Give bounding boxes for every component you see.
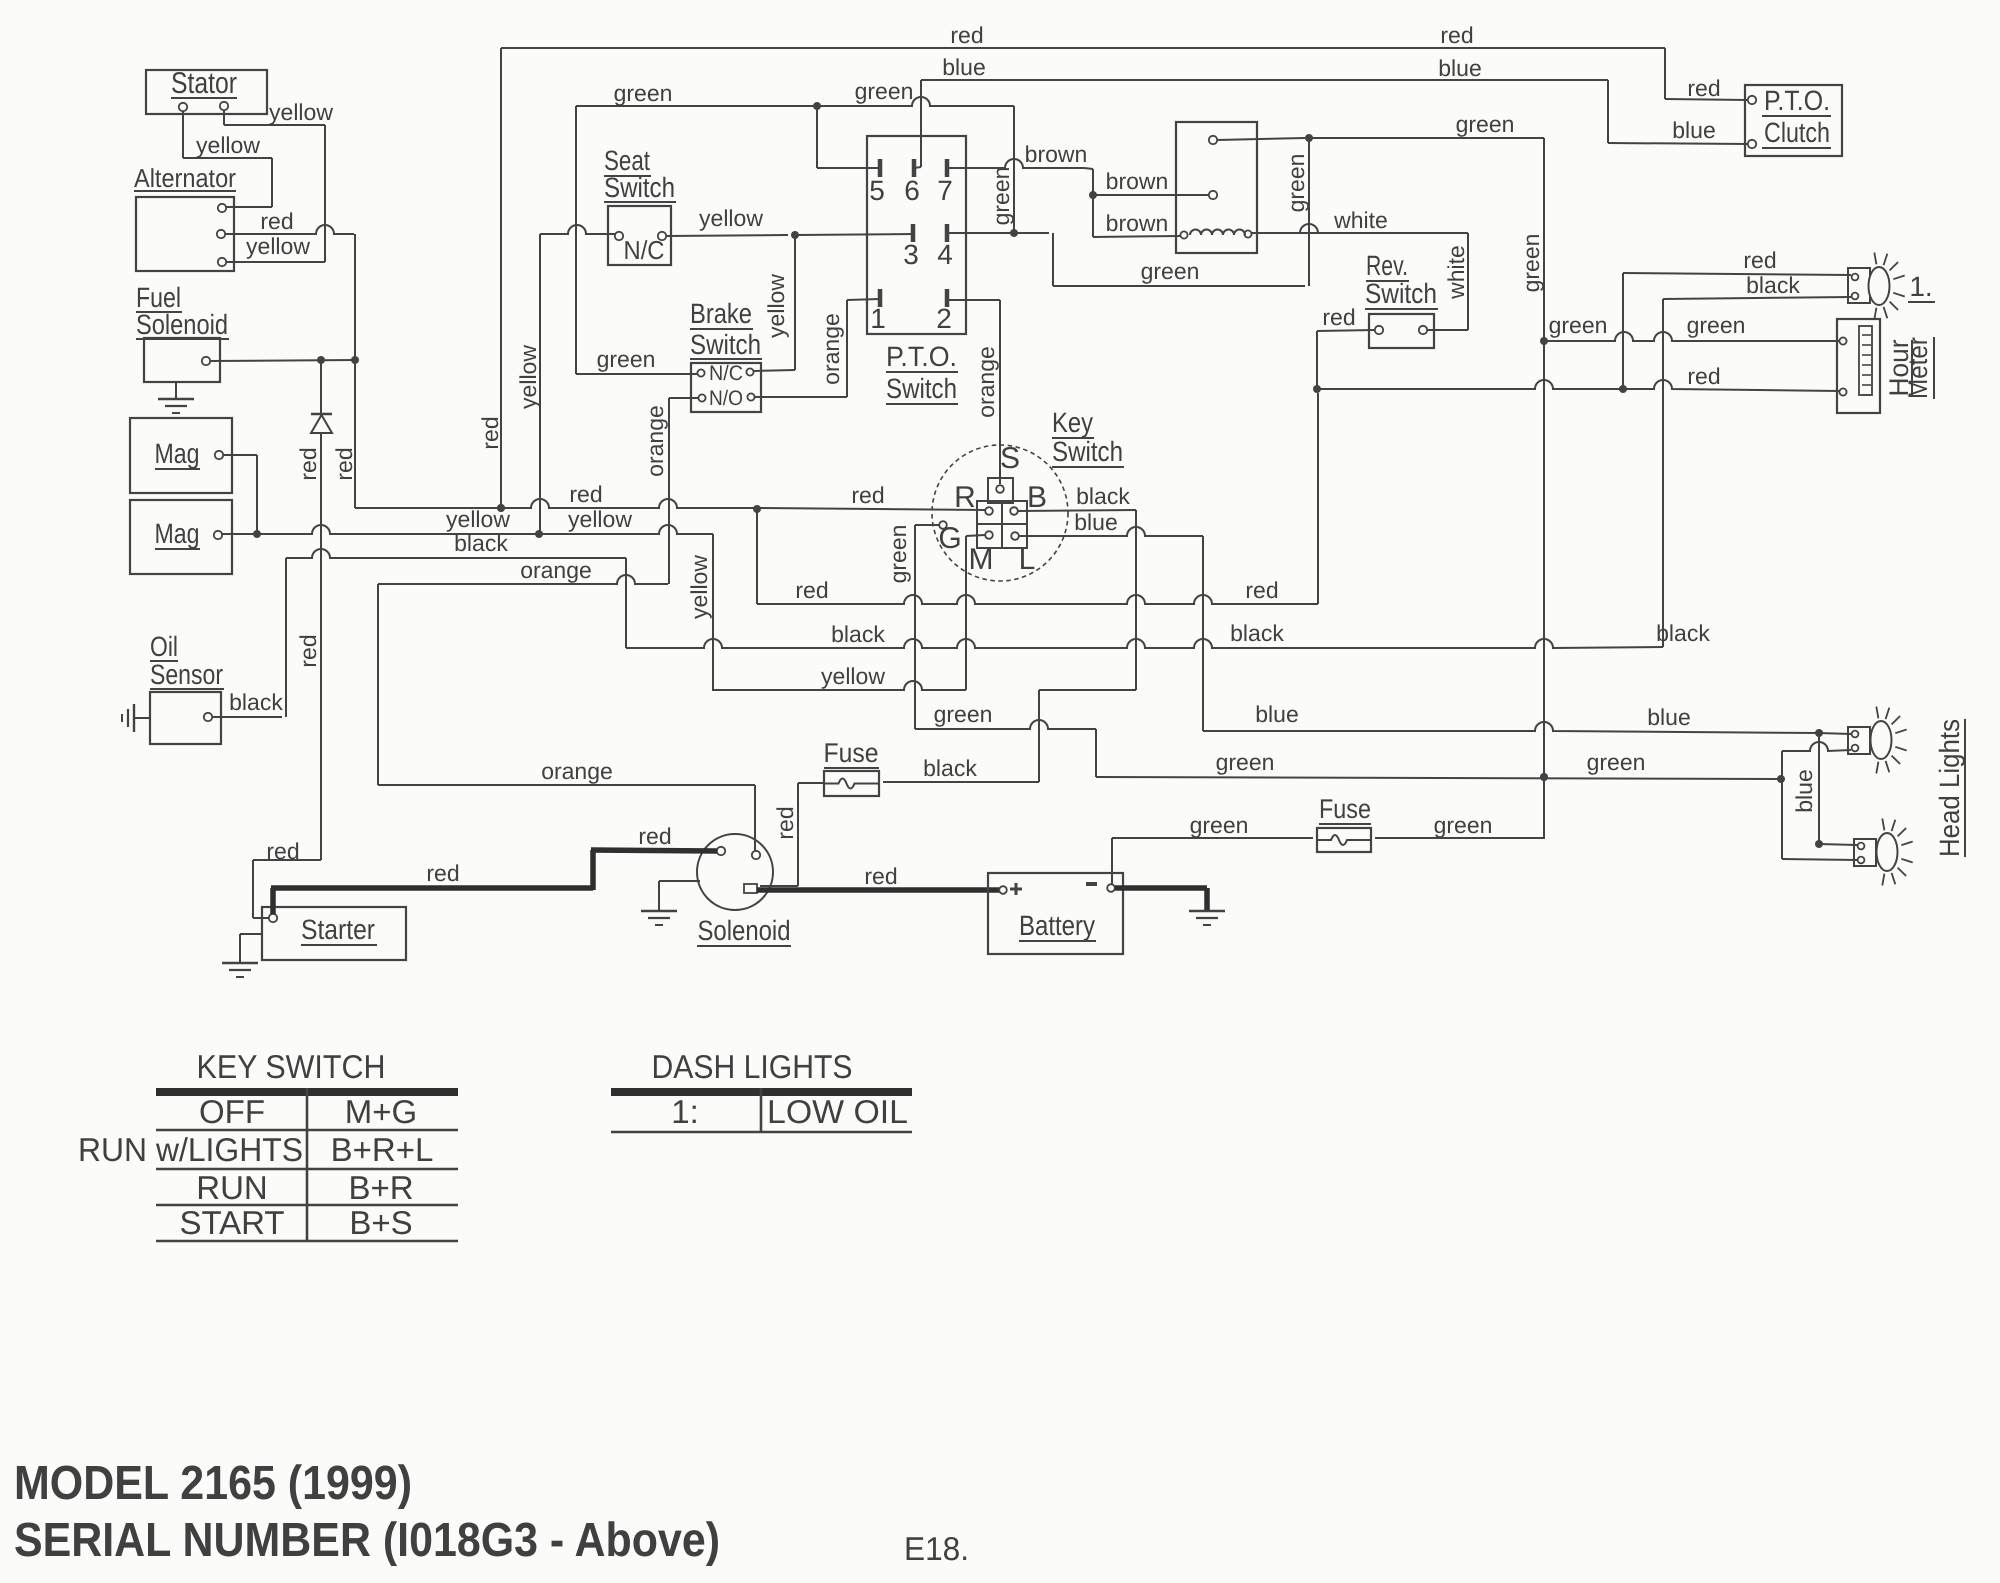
svg-text:B: B bbox=[1027, 481, 1047, 514]
svg-text:yellow: yellow bbox=[246, 233, 310, 259]
svg-text:Stator: Stator bbox=[171, 67, 237, 100]
svg-text:RUN: RUN bbox=[196, 1169, 268, 1206]
wire red key junction drop bbox=[756, 509, 758, 604]
svg-text:Mag: Mag bbox=[155, 438, 200, 469]
svg-text:red: red bbox=[864, 863, 897, 889]
wire black bus bbox=[212, 530, 1710, 717]
svg-text:P.T.O.: P.T.O. bbox=[886, 341, 957, 372]
svg-text:B+R+L: B+R+L bbox=[331, 1131, 434, 1168]
wire fuel solenoid to red verticals bbox=[210, 356, 359, 364]
svg-text:N/C: N/C bbox=[709, 362, 743, 385]
svg-text:Starter: Starter bbox=[301, 914, 375, 945]
wire green battery to fuse bbox=[1112, 812, 1313, 884]
svg-text:red: red bbox=[1687, 363, 1720, 389]
fuse 1 bbox=[824, 738, 880, 796]
svg-text:yellow: yellow bbox=[196, 132, 260, 158]
svg-text:Fuse: Fuse bbox=[1319, 794, 1371, 824]
svg-text:Clutch: Clutch bbox=[1764, 117, 1830, 148]
svg-text:DASH LIGHTS: DASH LIGHTS bbox=[652, 1048, 853, 1085]
svg-text:blue: blue bbox=[1647, 704, 1690, 730]
svg-text:Solenoid: Solenoid bbox=[136, 309, 228, 340]
svg-text:yellow: yellow bbox=[763, 274, 789, 338]
fuse 2 bbox=[1317, 794, 1371, 852]
wire brown pto pin7 to relay bbox=[947, 141, 1209, 237]
wire green engine-kill top run bbox=[576, 78, 1014, 374]
svg-text:green: green bbox=[1190, 812, 1249, 838]
svg-text:red: red bbox=[295, 447, 321, 480]
wire orange brake NO-left to orange bus bbox=[642, 398, 698, 584]
svg-text:red: red bbox=[1322, 304, 1355, 330]
svg-text:Switch: Switch bbox=[886, 373, 957, 404]
wire red bus to hour meter bbox=[1313, 363, 1839, 393]
hour meter box bbox=[1837, 319, 1880, 413]
wire red thick solenoid to battery bbox=[757, 863, 999, 890]
svg-text:green: green bbox=[855, 78, 914, 104]
dash lamp 1 label bbox=[1908, 271, 1935, 302]
wire yellow seat branch to brake switch bbox=[754, 235, 795, 371]
svg-text:orange: orange bbox=[642, 405, 668, 477]
svg-text:red: red bbox=[1245, 577, 1278, 603]
key switch table bbox=[78, 1048, 458, 1241]
svg-text:blue: blue bbox=[942, 54, 985, 80]
svg-text:green: green bbox=[614, 80, 673, 106]
wire red bus to key R bbox=[355, 481, 985, 513]
svg-text:blue: blue bbox=[1791, 769, 1817, 812]
svg-text:yellow: yellow bbox=[515, 345, 541, 409]
svg-text:black: black bbox=[923, 755, 977, 781]
svg-text:green: green bbox=[885, 525, 911, 584]
ground starter bbox=[222, 934, 262, 977]
svg-text:MODEL 2165 (1999): MODEL 2165 (1999) bbox=[14, 1457, 412, 1510]
title model bbox=[14, 1457, 412, 1510]
svg-text:red: red bbox=[266, 838, 299, 864]
pto switch label bbox=[886, 341, 958, 404]
svg-text:N/C: N/C bbox=[624, 235, 665, 265]
svg-text:E18.: E18. bbox=[904, 1530, 969, 1567]
svg-text:green: green bbox=[1587, 749, 1646, 775]
ground fuel solenoid bbox=[158, 382, 194, 413]
svg-text:green: green bbox=[1456, 111, 1515, 137]
wire red dash lamp bbox=[1623, 247, 1851, 389]
wire green key G to green bus bbox=[885, 525, 1785, 783]
svg-text:B+R: B+R bbox=[348, 1169, 413, 1206]
svg-text:black: black bbox=[831, 621, 885, 647]
svg-text:OFF: OFF bbox=[199, 1093, 265, 1130]
svg-text:B+S: B+S bbox=[349, 1204, 412, 1241]
svg-text:Switch: Switch bbox=[1052, 436, 1123, 467]
wire orange brake NO-right to pto pin1 bbox=[755, 299, 880, 397]
svg-text:Sensor: Sensor bbox=[150, 659, 223, 690]
svg-text:black: black bbox=[1076, 483, 1130, 509]
oil sensor box bbox=[150, 631, 224, 744]
key switch label bbox=[1052, 407, 1124, 467]
svg-text:green: green bbox=[1216, 749, 1275, 775]
svg-text:green: green bbox=[1141, 258, 1200, 284]
svg-text:orange: orange bbox=[818, 313, 844, 385]
wire red lower run to right bbox=[757, 393, 1318, 604]
wire red alternator vertical bbox=[331, 234, 357, 508]
wire green head lights lower bbox=[1782, 742, 1857, 860]
svg-text:yellow: yellow bbox=[269, 99, 333, 125]
svg-text:brown: brown bbox=[1106, 168, 1169, 194]
svg-text:red: red bbox=[1743, 247, 1776, 273]
svg-text:black: black bbox=[1230, 620, 1284, 646]
svg-text:yellow: yellow bbox=[699, 205, 763, 231]
svg-text:Battery: Battery bbox=[1019, 910, 1095, 941]
mag box 1 bbox=[130, 418, 232, 493]
svg-text:yellow: yellow bbox=[446, 506, 510, 532]
svg-text:Oil: Oil bbox=[150, 631, 178, 662]
svg-text:brown: brown bbox=[1106, 210, 1169, 236]
svg-text:Switch: Switch bbox=[1365, 278, 1437, 309]
key switch body bbox=[932, 442, 1068, 581]
page number bbox=[904, 1530, 969, 1567]
svg-text:green: green bbox=[597, 346, 656, 372]
svg-text:green: green bbox=[1549, 312, 1608, 338]
svg-text:green: green bbox=[934, 701, 993, 727]
svg-text:Fuse: Fuse bbox=[824, 738, 879, 768]
svg-text:green: green bbox=[1283, 154, 1309, 213]
diode D1 bbox=[311, 414, 332, 433]
svg-text:red: red bbox=[426, 860, 459, 886]
svg-text:black: black bbox=[1656, 620, 1710, 646]
wire red diode branch to starter bbox=[253, 360, 321, 918]
svg-text:red: red bbox=[795, 577, 828, 603]
pto clutch box bbox=[1745, 85, 1842, 156]
svg-text:black: black bbox=[454, 530, 508, 556]
svg-text:orange: orange bbox=[541, 758, 613, 784]
wire green relay to main vertical bbox=[1217, 111, 1548, 838]
svg-text:Alternator: Alternator bbox=[134, 163, 236, 193]
svg-text:M+G: M+G bbox=[345, 1093, 417, 1130]
svg-text:red: red bbox=[772, 806, 798, 839]
svg-text:brown: brown bbox=[1025, 141, 1088, 167]
starter box bbox=[262, 907, 406, 960]
mag box 2 bbox=[130, 500, 232, 574]
svg-text:Mag: Mag bbox=[155, 518, 200, 549]
stator box bbox=[146, 67, 267, 114]
wire red top bus bbox=[477, 22, 1748, 512]
wire red thick starter to solenoid bbox=[271, 823, 717, 914]
svg-text:red: red bbox=[295, 634, 321, 667]
svg-text:Key: Key bbox=[1052, 407, 1093, 438]
svg-text:Brake: Brake bbox=[690, 298, 752, 329]
svg-text:N/O: N/O bbox=[709, 387, 743, 410]
wire yellow seat to pto pin3 bbox=[666, 205, 913, 239]
ground solenoid bbox=[641, 881, 700, 925]
svg-text:7: 7 bbox=[937, 175, 953, 206]
fuel solenoid box bbox=[136, 282, 229, 382]
svg-text:START: START bbox=[179, 1204, 284, 1241]
svg-text:yellow: yellow bbox=[821, 663, 885, 689]
svg-text:SERIAL NUMBER (I018G3 - Above): SERIAL NUMBER (I018G3 - Above) bbox=[14, 1514, 720, 1567]
svg-text:L: L bbox=[1019, 543, 1036, 576]
ground oil sensor bbox=[122, 704, 150, 732]
svg-text:black: black bbox=[1746, 272, 1800, 298]
dash lamp 1 bbox=[1848, 253, 1905, 320]
svg-text:green: green bbox=[1687, 312, 1746, 338]
wire red fuse to solenoid bbox=[760, 783, 824, 886]
svg-text:red: red bbox=[477, 416, 503, 449]
svg-text:orange: orange bbox=[520, 557, 592, 583]
svg-text:4: 4 bbox=[937, 239, 953, 270]
svg-text:G: G bbox=[938, 522, 961, 555]
svg-text:LOW OIL: LOW OIL bbox=[767, 1093, 908, 1130]
svg-text:Head Lights: Head Lights bbox=[1934, 719, 1965, 857]
rev switch box bbox=[1365, 250, 1438, 348]
wire mag1 to yellow bus bbox=[223, 455, 257, 534]
battery box bbox=[988, 873, 1123, 954]
wire yellow stator-left to alternator-top bbox=[183, 111, 272, 207]
svg-text:M: M bbox=[969, 543, 994, 576]
svg-text:P.T.O.: P.T.O. bbox=[1764, 85, 1830, 116]
svg-text:orange: orange bbox=[973, 346, 999, 418]
svg-text:Switch: Switch bbox=[604, 172, 675, 203]
wire yellow seat-left vertical bbox=[515, 225, 615, 534]
head lights label bbox=[1934, 719, 1965, 857]
svg-text:red: red bbox=[638, 823, 671, 849]
svg-text:red: red bbox=[260, 208, 293, 234]
wire blue top bus bbox=[914, 54, 1748, 168]
seat switch box bbox=[604, 145, 676, 265]
dash lights table bbox=[611, 1048, 912, 1132]
svg-text:red: red bbox=[569, 481, 602, 507]
wire black key B to fuse bbox=[883, 483, 1136, 782]
wire orange pto pin2 to key S bbox=[947, 300, 1000, 484]
svg-text:yellow: yellow bbox=[686, 555, 712, 619]
svg-text:3: 3 bbox=[903, 239, 919, 270]
wire yellow bus bbox=[221, 506, 985, 691]
svg-text:red: red bbox=[851, 482, 884, 508]
alternator box bbox=[134, 163, 236, 271]
svg-text:white: white bbox=[1443, 245, 1469, 300]
wire green hour meter bbox=[1544, 312, 1839, 341]
wire yellow stator-right to alternator-bottom bbox=[224, 99, 333, 262]
svg-text:Switch: Switch bbox=[690, 329, 761, 360]
svg-text:green: green bbox=[1434, 812, 1493, 838]
svg-text:Rev.: Rev. bbox=[1366, 250, 1408, 281]
head light 1 bbox=[1848, 707, 1907, 774]
svg-text:blue: blue bbox=[1438, 55, 1481, 81]
title serial bbox=[14, 1514, 720, 1567]
svg-text:5: 5 bbox=[869, 175, 885, 206]
wire red rev switch drop bbox=[1317, 304, 1375, 389]
svg-text:Solenoid: Solenoid bbox=[698, 915, 791, 946]
svg-text:2: 2 bbox=[936, 303, 952, 334]
wire orange bus bbox=[378, 557, 755, 851]
relay box bbox=[1176, 122, 1257, 253]
relay coil bbox=[1180, 230, 1251, 239]
svg-text:black: black bbox=[229, 689, 283, 715]
solenoid body bbox=[697, 834, 791, 946]
head light 2 bbox=[1854, 819, 1913, 886]
svg-text:6: 6 bbox=[904, 175, 920, 206]
svg-text:1: 1 bbox=[870, 303, 886, 334]
svg-text:1:: 1: bbox=[671, 1093, 699, 1130]
brake switch box bbox=[690, 298, 762, 412]
wire white rev switch to relay coil bbox=[1252, 207, 1469, 330]
wire red alternator-middle to red vertical bbox=[226, 208, 354, 234]
svg-text:red: red bbox=[1687, 75, 1720, 101]
svg-text:Meter: Meter bbox=[1903, 337, 1933, 399]
wire green fuse to green bus bbox=[1375, 812, 1544, 838]
svg-text:yellow: yellow bbox=[568, 506, 632, 532]
pto switch box bbox=[867, 136, 966, 334]
wire blue key L to head lights bbox=[1019, 509, 1857, 848]
wire green pto pin4 to relay bbox=[947, 134, 1313, 286]
svg-text:blue: blue bbox=[1255, 701, 1298, 727]
svg-text:S: S bbox=[1000, 442, 1020, 475]
svg-text:KEY SWITCH: KEY SWITCH bbox=[197, 1048, 386, 1085]
svg-text:red: red bbox=[1440, 22, 1473, 48]
svg-text:blue: blue bbox=[1672, 117, 1715, 143]
svg-text:white: white bbox=[1333, 207, 1388, 233]
svg-text:green: green bbox=[1518, 234, 1544, 293]
svg-text:blue: blue bbox=[1074, 509, 1117, 535]
svg-text:red: red bbox=[331, 447, 357, 480]
hour meter label bbox=[1884, 337, 1934, 399]
svg-text:green: green bbox=[988, 167, 1014, 226]
wire black dash lamp bbox=[1663, 272, 1851, 647]
wire black thick battery to ground bbox=[1115, 888, 1207, 911]
svg-text:red: red bbox=[950, 22, 983, 48]
ground battery bbox=[1189, 911, 1225, 925]
svg-text:1.: 1. bbox=[1909, 271, 1932, 302]
svg-text:RUN w/LIGHTS: RUN w/LIGHTS bbox=[78, 1131, 303, 1168]
